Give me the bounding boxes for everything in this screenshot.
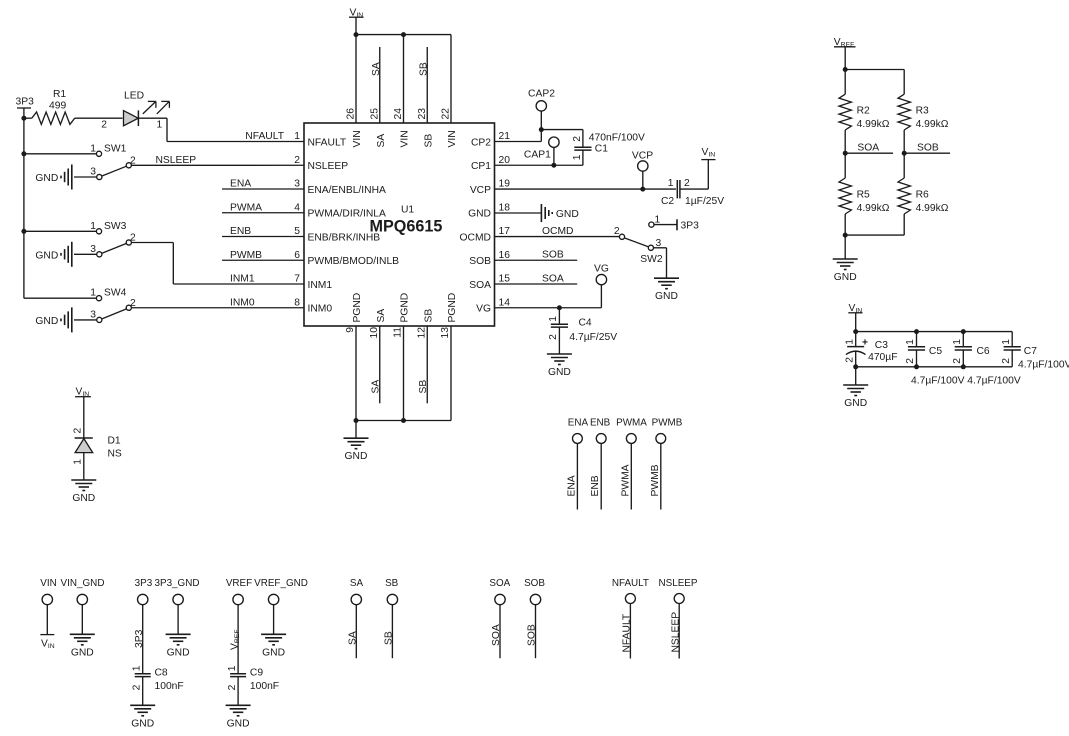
- svg-text:2: 2: [572, 136, 583, 142]
- svg-text:SOA: SOA: [469, 280, 491, 291]
- capacitor C2 1uF/25V: [661, 178, 724, 207]
- svg-text:R3: R3: [916, 106, 929, 117]
- svg-text:VCP: VCP: [632, 151, 653, 162]
- svg-text:SOB: SOB: [542, 250, 564, 261]
- svg-text:1µF/25V: 1µF/25V: [685, 196, 724, 207]
- svg-text:SB: SB: [418, 62, 429, 76]
- svg-text:3P3_GND: 3P3_GND: [154, 578, 199, 589]
- ground GND at bulk caps: [843, 385, 868, 409]
- svg-text:24: 24: [393, 108, 404, 120]
- svg-text:GND: GND: [35, 173, 58, 184]
- connector pin VIN: [40, 578, 56, 635]
- svg-text:SOB: SOB: [527, 624, 538, 646]
- svg-text:CP1: CP1: [471, 161, 491, 172]
- svg-text:C5: C5: [929, 346, 942, 357]
- svg-text:PWMB: PWMB: [652, 418, 683, 429]
- net label NFAULT: [245, 131, 284, 142]
- junction VIN rail / pin 26: [354, 32, 359, 37]
- svg-text:7: 7: [294, 274, 300, 285]
- U1 bottom pin numbers 9-13: [345, 327, 451, 339]
- svg-text:4: 4: [294, 202, 300, 213]
- svg-text:GND: GND: [655, 291, 678, 302]
- wire 3P3 rail: [23, 108, 25, 298]
- pad VCP: [632, 151, 653, 189]
- svg-text:SOB: SOB: [469, 256, 491, 267]
- svg-text:SA: SA: [376, 309, 387, 323]
- ground GND at VREF_GND: [261, 634, 286, 658]
- svg-text:18: 18: [499, 202, 511, 213]
- net stub SA (pin 10): [371, 326, 382, 403]
- svg-text:U1: U1: [401, 205, 414, 216]
- wire SW3 to INM1 pin 7: [131, 243, 304, 285]
- svg-text:1: 1: [157, 120, 163, 131]
- net label INM0: [230, 297, 255, 308]
- svg-text:19: 19: [499, 179, 511, 190]
- svg-text:CAP1: CAP1: [524, 150, 551, 161]
- junction VREF rail: [843, 67, 848, 72]
- connector pin VREF_GND: [254, 578, 308, 634]
- svg-text:PWMB/BMOD/INLB: PWMB/BMOD/INLB: [308, 256, 400, 267]
- svg-text:8: 8: [294, 297, 300, 308]
- ground GND at C9: [226, 705, 251, 729]
- svg-text:6: 6: [294, 250, 300, 261]
- connector pin VIN_GND: [61, 578, 105, 634]
- svg-text:3: 3: [90, 166, 96, 177]
- svg-text:1: 1: [668, 178, 674, 189]
- capacitor C5 4.7uF/100V: [905, 332, 942, 367]
- svg-text:INM0: INM0: [308, 304, 333, 315]
- net flag 3P3 at SW2 pin 1: [649, 214, 699, 231]
- ground GND at VIN_GND: [70, 634, 95, 658]
- svg-text:OCMD: OCMD: [460, 232, 491, 243]
- svg-text:PWMA: PWMA: [230, 202, 262, 213]
- junction divider bottom: [843, 233, 848, 238]
- connector pin SOA: [489, 578, 510, 658]
- svg-text:VG: VG: [594, 264, 609, 275]
- wire NSLEEP SW1 to pin 2: [131, 164, 304, 166]
- wire SW4 to INM0 pin 8: [131, 307, 304, 309]
- svg-text:GND: GND: [131, 718, 154, 729]
- wire C2 to VIN flag: [680, 160, 708, 190]
- U1 top pin numbers 26-22: [346, 108, 452, 120]
- svg-text:GND: GND: [548, 367, 571, 378]
- svg-text:SB: SB: [385, 578, 399, 589]
- svg-text:GND: GND: [72, 493, 95, 504]
- svg-text:LED: LED: [124, 91, 144, 102]
- junction 3P3 rail / SW1: [21, 151, 26, 156]
- svg-text:SA: SA: [376, 134, 387, 148]
- svg-text:SB: SB: [384, 631, 395, 645]
- svg-text:ENB/BRK/INHB: ENB/BRK/INHB: [308, 232, 381, 243]
- svg-text:SA: SA: [371, 380, 382, 394]
- capacitor C6 4.7uF/100V: [952, 332, 990, 367]
- svg-text:PGND: PGND: [400, 293, 411, 323]
- wire bulk caps to ground: [855, 367, 857, 385]
- svg-text:4.7µF/25V: 4.7µF/25V: [569, 332, 617, 343]
- switch SW3: [24, 221, 136, 257]
- wire pin 11 PGND: [403, 326, 405, 421]
- svg-text:SA: SA: [350, 578, 364, 589]
- svg-text:NFAULT: NFAULT: [612, 578, 649, 589]
- svg-text:2: 2: [905, 358, 916, 364]
- svg-text:VREF_GND: VREF_GND: [254, 578, 308, 589]
- svg-text:NFAULT: NFAULT: [622, 613, 633, 652]
- svg-text:C6: C6: [977, 346, 990, 357]
- svg-text:10: 10: [369, 327, 380, 339]
- LED indicator: [101, 91, 169, 131]
- svg-text:NSLEEP: NSLEEP: [308, 161, 349, 172]
- net stub SOB (divider): [904, 143, 950, 154]
- net stub SOA (divider): [845, 143, 893, 154]
- svg-text:CAP2: CAP2: [528, 89, 555, 100]
- net stub SA (pin 25): [371, 47, 382, 123]
- pad CAP2: [528, 89, 555, 112]
- svg-text:2: 2: [548, 334, 559, 340]
- resistor R6 4.99k: [898, 153, 949, 235]
- wire VIN to pin 24: [403, 35, 405, 123]
- ground GND at D1: [71, 480, 96, 504]
- wire pin 21 CP2 to CAP2: [495, 111, 542, 141]
- capacitor C7 4.7uF/100V: [1001, 332, 1069, 371]
- svg-text:3P3: 3P3: [134, 629, 145, 648]
- svg-text:R2: R2: [857, 106, 870, 117]
- svg-text:MPQ6615: MPQ6615: [370, 218, 443, 236]
- net stub ENA (pin 3): [222, 179, 304, 190]
- svg-text:VIN: VIN: [447, 130, 458, 147]
- wire CP2 to C1 pin 2: [541, 130, 583, 147]
- junction node SOB: [902, 151, 907, 156]
- junction VCP pad: [640, 187, 645, 192]
- wire C8 to ground: [142, 677, 144, 706]
- power flag VREF (divider): [834, 37, 856, 70]
- svg-text:SW1: SW1: [104, 143, 127, 154]
- svg-text:VIN: VIN: [400, 130, 411, 147]
- diode D1 NS: [72, 428, 122, 465]
- svg-text:VREF: VREF: [226, 578, 252, 589]
- connector pin SB: [384, 578, 399, 658]
- pad VG: [594, 264, 609, 285]
- junction node SOA: [843, 151, 848, 156]
- svg-text:PGND: PGND: [447, 293, 458, 323]
- svg-text:499: 499: [49, 101, 66, 112]
- svg-text:1: 1: [131, 665, 142, 671]
- junction bottom rail / C6: [961, 364, 966, 369]
- junction VG / C4: [557, 305, 562, 310]
- net label NSLEEP: [156, 155, 197, 166]
- svg-text:GND: GND: [262, 647, 285, 658]
- svg-text:2: 2: [227, 684, 238, 690]
- svg-text:VCP: VCP: [470, 185, 491, 196]
- svg-text:3P3: 3P3: [16, 97, 35, 108]
- net stub SOA (pin 15): [495, 274, 578, 285]
- svg-text:PGND: PGND: [352, 293, 363, 323]
- ground GND at PGND bus: [344, 438, 369, 462]
- ground GND at C4: [547, 354, 572, 378]
- junction 3P3 rail / R1: [21, 116, 26, 121]
- svg-text:1: 1: [90, 221, 96, 232]
- svg-text:100nF: 100nF: [155, 681, 184, 692]
- test point ENA: [566, 418, 588, 510]
- ground GND at SW2: [654, 278, 679, 302]
- svg-text:R6: R6: [916, 189, 929, 200]
- ground GND at SW3 pin 3: [35, 242, 97, 267]
- svg-text:1: 1: [655, 214, 661, 225]
- svg-text:GND: GND: [71, 647, 94, 658]
- power flag VIN (bulk caps): [848, 303, 862, 332]
- svg-text:GND: GND: [35, 316, 58, 327]
- svg-text:SW2: SW2: [640, 254, 663, 265]
- svg-text:ENA: ENA: [230, 179, 251, 190]
- svg-text:D1: D1: [108, 436, 121, 447]
- svg-text:GND: GND: [844, 398, 867, 409]
- wire divider bottom: [845, 235, 904, 259]
- ground GND at divider: [833, 259, 858, 283]
- connector pin SOB: [524, 578, 545, 658]
- svg-text:1: 1: [227, 665, 238, 671]
- svg-text:GND: GND: [345, 451, 368, 462]
- svg-text:4.99kΩ: 4.99kΩ: [916, 203, 949, 214]
- svg-text:26: 26: [346, 108, 357, 120]
- svg-text:C4: C4: [579, 318, 592, 329]
- power flag VIN (right of C2): [701, 147, 715, 160]
- svg-text:3: 3: [294, 179, 300, 190]
- svg-text:2: 2: [1001, 358, 1012, 364]
- svg-text:GND: GND: [468, 209, 491, 220]
- switch SW1: [24, 143, 136, 179]
- svg-text:SOA: SOA: [491, 624, 502, 646]
- svg-text:SB: SB: [418, 380, 429, 394]
- wire VREF rail to R3: [845, 70, 904, 95]
- switch SW2: [614, 226, 663, 265]
- value labels C5 C6: [911, 376, 1021, 387]
- junction 3P3 rail / SW3: [21, 229, 26, 234]
- svg-text:PWMA: PWMA: [616, 418, 647, 429]
- ground GND at pin 18: [495, 204, 579, 222]
- svg-text:470µF: 470µF: [868, 352, 897, 363]
- svg-text:C1: C1: [595, 144, 608, 155]
- wire VIN top rail: [356, 34, 451, 36]
- svg-text:SB: SB: [423, 309, 434, 323]
- U1 right pin numbers 21-14: [499, 131, 511, 308]
- switch SW4: [24, 288, 136, 323]
- svg-text:2: 2: [131, 684, 142, 690]
- test point PWMA: [616, 418, 647, 510]
- junction bottom rail / C5: [914, 364, 919, 369]
- svg-text:GND: GND: [227, 718, 250, 729]
- svg-text:2: 2: [101, 120, 107, 131]
- svg-text:VIN: VIN: [40, 578, 56, 589]
- svg-text:PWMA: PWMA: [620, 464, 631, 496]
- svg-text:INM1: INM1: [308, 280, 333, 291]
- svg-text:1: 1: [844, 339, 855, 345]
- ground GND at 3P3_GND: [166, 634, 191, 658]
- capacitor C4 4.7uF/25V: [548, 308, 617, 343]
- junction bottom rail / C3: [853, 364, 858, 369]
- test point PWMB: [650, 418, 683, 510]
- junction PGND bus pin 9: [354, 418, 359, 423]
- IC U1 MPQ6615 body: [304, 123, 495, 326]
- svg-text:PWMA/DIR/INLA: PWMA/DIR/INLA: [308, 209, 387, 220]
- connector pin SA: [348, 578, 364, 658]
- wire pin 9 PGND: [355, 326, 357, 421]
- svg-text:INM0: INM0: [230, 297, 255, 308]
- svg-text:R1: R1: [53, 89, 66, 100]
- junction VIN rail / C3: [853, 329, 858, 334]
- net stub PWMA (pin 4): [222, 202, 304, 213]
- svg-text:C3: C3: [875, 340, 888, 351]
- net label OCMD: [542, 226, 573, 237]
- svg-text:2: 2: [294, 155, 300, 166]
- svg-text:SA: SA: [371, 62, 382, 76]
- svg-text:1: 1: [90, 288, 96, 299]
- connector pin VREF: [226, 578, 252, 674]
- svg-text:17: 17: [499, 226, 511, 237]
- svg-text:11: 11: [393, 327, 404, 338]
- net flag 3P3 (top left): [16, 97, 35, 109]
- svg-text:2: 2: [684, 178, 690, 189]
- net stub ENB (pin 5): [222, 226, 304, 237]
- svg-text:GND: GND: [167, 647, 190, 658]
- svg-text:R5: R5: [857, 189, 870, 200]
- wire PGND bus to ground: [355, 421, 357, 439]
- svg-text:1: 1: [294, 131, 300, 142]
- svg-text:21: 21: [499, 131, 511, 142]
- svg-text:C2: C2: [661, 196, 674, 207]
- U1 left pin numbers 1-8: [294, 131, 300, 308]
- svg-text:VIN: VIN: [352, 130, 363, 147]
- svg-text:GND: GND: [35, 250, 58, 261]
- svg-text:SOA: SOA: [857, 143, 879, 154]
- connector pin NFAULT: [612, 578, 649, 659]
- wire LED to NFAULT pin 1: [138, 118, 304, 141]
- net stub PWMB (pin 6): [222, 250, 304, 261]
- power flag VIN (connector, inverted): [40, 635, 54, 650]
- svg-text:NSLEEP: NSLEEP: [670, 612, 681, 653]
- svg-text:20: 20: [499, 155, 511, 166]
- svg-text:ENB: ENB: [590, 418, 611, 429]
- net stub SB (pin 23): [418, 47, 429, 123]
- svg-text:12: 12: [416, 327, 427, 339]
- junction CP2 / C1: [539, 127, 544, 132]
- U1 top pin names VIN SA VIN SB VIN (pins 26-22): [352, 130, 458, 147]
- junction top rail / C6: [961, 329, 966, 334]
- svg-text:23: 23: [417, 108, 428, 120]
- net stub SOB (pin 16): [495, 250, 578, 261]
- svg-text:NS: NS: [108, 449, 122, 460]
- svg-text:22: 22: [441, 108, 452, 120]
- svg-text:SOA: SOA: [542, 274, 564, 285]
- wire SW2 pin 3 to ground: [654, 248, 667, 278]
- svg-text:1: 1: [90, 143, 96, 154]
- svg-text:ENB: ENB: [230, 226, 251, 237]
- junction PGND bus pin 11: [401, 418, 406, 423]
- svg-text:SOB: SOB: [524, 578, 545, 589]
- svg-text:14: 14: [499, 297, 511, 308]
- svg-text:5: 5: [294, 226, 300, 237]
- connector pin NSLEEP: [659, 578, 698, 659]
- power flag VIN (top of U1): [349, 8, 364, 35]
- pad CAP1: [524, 137, 559, 165]
- svg-text:ENA: ENA: [566, 475, 577, 496]
- wire C1 pin 1 to CP1 pin 20: [495, 150, 583, 165]
- svg-text:INM1: INM1: [230, 274, 255, 285]
- svg-text:NSLEEP: NSLEEP: [659, 578, 698, 589]
- svg-text:SW3: SW3: [104, 221, 127, 232]
- svg-text:C8: C8: [155, 667, 168, 678]
- junction top rail / C5: [914, 329, 919, 334]
- connector pin 3P3_GND: [154, 578, 199, 634]
- power flag VIN (D1): [75, 387, 91, 439]
- svg-text:100nF: 100nF: [250, 681, 279, 692]
- svg-text:9: 9: [345, 327, 356, 333]
- svg-text:4.7µF/100V 4.7µF/100V: 4.7µF/100V 4.7µF/100V: [911, 376, 1021, 387]
- resistor R3 4.99k: [898, 94, 949, 153]
- svg-text:4.99kΩ: 4.99kΩ: [916, 119, 949, 130]
- wire pin 17 OCMD to SW2: [495, 236, 620, 238]
- svg-text:15: 15: [499, 274, 511, 285]
- svg-text:2: 2: [614, 226, 620, 237]
- svg-text:1: 1: [572, 154, 583, 160]
- svg-text:C9: C9: [250, 667, 263, 678]
- svg-text:3P3: 3P3: [135, 578, 153, 589]
- svg-text:NFAULT: NFAULT: [308, 137, 347, 148]
- svg-text:1: 1: [548, 316, 559, 322]
- capacitor C3 470uF electrolytic: [844, 332, 897, 367]
- U1 bottom pin names PGND SA PGND SB PGND (pins 9-13): [352, 293, 458, 323]
- connector pin 3P3: [134, 578, 153, 674]
- svg-text:NFAULT: NFAULT: [245, 131, 284, 142]
- svg-text:ENB: ENB: [590, 475, 601, 496]
- wire VIN to pin 26: [355, 35, 357, 123]
- svg-text:3: 3: [90, 309, 96, 320]
- test point ENB: [590, 418, 611, 510]
- svg-text:ENA: ENA: [568, 418, 589, 429]
- svg-text:SA: SA: [348, 631, 359, 645]
- svg-text:13: 13: [440, 327, 451, 339]
- U1 right pin names (pins 21-14): [460, 137, 492, 314]
- wire D1 to ground: [83, 453, 85, 480]
- svg-text:3: 3: [90, 244, 96, 255]
- svg-text:NSLEEP: NSLEEP: [156, 155, 197, 166]
- svg-text:25: 25: [369, 108, 380, 120]
- resistor R5 4.99k: [839, 153, 890, 235]
- svg-text:2: 2: [72, 428, 83, 434]
- svg-text:GND: GND: [556, 209, 579, 220]
- svg-text:OCMD: OCMD: [542, 226, 573, 237]
- svg-text:C7: C7: [1024, 346, 1037, 357]
- svg-text:SB: SB: [423, 134, 434, 148]
- svg-text:2: 2: [952, 358, 963, 364]
- svg-text:SOA: SOA: [489, 578, 510, 589]
- U1 left pin names (pins 1-8): [308, 137, 400, 314]
- svg-text:470nF/100V: 470nF/100V: [589, 132, 645, 143]
- svg-text:PWMB: PWMB: [650, 464, 661, 496]
- ground GND at SW1 pin 3: [35, 165, 96, 190]
- capacitor C8 100nF: [131, 665, 183, 692]
- wire bulk caps bottom rail: [856, 366, 1013, 368]
- svg-text:1: 1: [905, 339, 916, 345]
- wire bulk caps top rail: [856, 331, 1013, 333]
- svg-text:2: 2: [844, 357, 855, 363]
- svg-text:1: 1: [1001, 339, 1012, 345]
- svg-text:4.99kΩ: 4.99kΩ: [857, 203, 890, 214]
- net stub SB (pin 12): [418, 326, 429, 403]
- svg-text:PWMB: PWMB: [230, 250, 262, 261]
- wire VIN to pin 22: [450, 35, 452, 123]
- svg-text:GND: GND: [834, 272, 857, 283]
- svg-text:16: 16: [499, 250, 511, 261]
- svg-text:VIN_GND: VIN_GND: [61, 578, 105, 589]
